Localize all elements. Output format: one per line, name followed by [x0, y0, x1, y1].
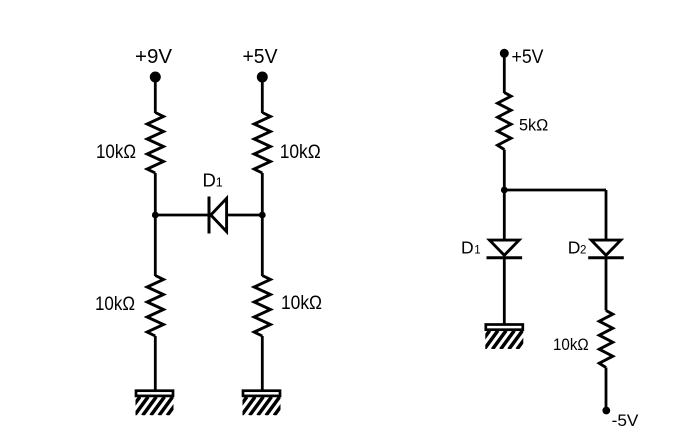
svg-text:1: 1: [474, 244, 480, 256]
node C junction: [501, 187, 508, 194]
svg-text:+9V: +9V: [135, 46, 173, 68]
node +5V terminal right circuit: [500, 49, 509, 58]
svg-text:10kΩ: 10kΩ: [280, 141, 321, 163]
wire: [261, 336, 264, 391]
svg-text:10kΩ: 10kΩ: [95, 293, 135, 315]
svg-text:D: D: [568, 237, 581, 257]
wire: [605, 190, 608, 240]
svg-text:10kΩ: 10kΩ: [96, 141, 136, 163]
resistor R5 5k: [498, 93, 512, 150]
node B junction: [259, 212, 266, 219]
resistor R2 10k right-top: [254, 113, 270, 174]
wire: [504, 189, 606, 192]
resistor R3 10k left-bottom: [147, 276, 163, 337]
ground left circuit branch 1: [126, 391, 189, 416]
ground left circuit branch 2: [233, 391, 296, 416]
svg-text:D: D: [203, 169, 216, 190]
wire: [154, 173, 157, 276]
wire: [261, 173, 264, 276]
svg-text:5kΩ: 5kΩ: [519, 115, 548, 134]
diode D2: [588, 240, 624, 258]
svg-text:+5V: +5V: [512, 46, 544, 68]
svg-text:+5V: +5V: [243, 46, 279, 68]
label D1 left circuit: [203, 169, 223, 190]
resistor R4 10k right-bottom: [254, 276, 270, 337]
svg-text:-5V: -5V: [612, 412, 639, 430]
wire: [154, 77, 157, 113]
wire: [154, 336, 157, 391]
ground right circuit: [476, 325, 539, 350]
svg-text:1: 1: [216, 175, 223, 189]
resistor R1 10k left-top: [147, 113, 163, 174]
svg-text:10kΩ: 10kΩ: [281, 292, 322, 314]
node +9V terminal: [150, 72, 161, 83]
label D1 right circuit: [461, 237, 481, 257]
diode D1 left circuit: [209, 197, 227, 234]
wire: [503, 53, 506, 93]
node A junction: [152, 212, 159, 219]
wire: [605, 368, 608, 411]
wire: [605, 258, 608, 311]
svg-text:10kΩ: 10kΩ: [553, 335, 589, 354]
resistor R6 10k right circuit: [599, 311, 613, 368]
wire: [503, 150, 506, 240]
wire: [155, 214, 209, 217]
label D2: [568, 237, 587, 257]
wire: [227, 214, 263, 217]
node -5V terminal: [602, 407, 610, 415]
wire: [503, 258, 506, 325]
svg-text:D: D: [461, 237, 474, 257]
svg-text:2: 2: [580, 244, 586, 256]
node +5V terminal left circuit: [257, 72, 268, 83]
diode D1 right circuit: [487, 240, 523, 258]
wire: [261, 77, 264, 113]
